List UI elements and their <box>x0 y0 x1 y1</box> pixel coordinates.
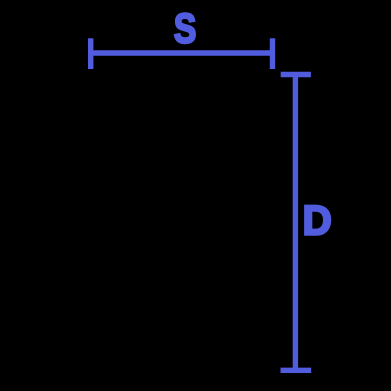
tick: D top end <box>281 72 311 77</box>
wire: S horizontal line <box>91 50 273 55</box>
wire: D vertical line <box>293 75 298 371</box>
tick: S right end <box>270 38 275 69</box>
svg-text:D: D <box>303 197 332 244</box>
dimension line S (horizontal span) <box>91 38 273 69</box>
tick: S left end <box>88 38 93 69</box>
dimension line D (vertical span) <box>281 75 312 371</box>
tick: D bottom end <box>281 368 312 373</box>
svg-text:S: S <box>174 6 196 52</box>
